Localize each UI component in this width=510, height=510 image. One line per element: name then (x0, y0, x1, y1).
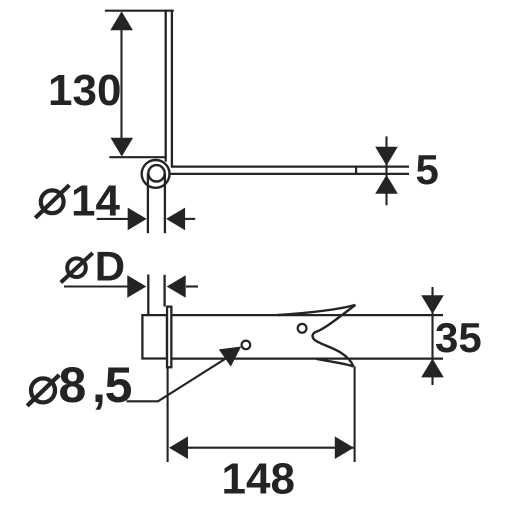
dim o14 line right (185, 218, 195, 220)
rod right line (163, 275, 165, 307)
strap2 bottom line (173, 357, 444, 359)
dim 35 vertical line (431, 287, 433, 385)
arrow leader (to hole 1) (219, 347, 241, 367)
dim 130 vertical line (120, 13, 122, 155)
arrow 35 up (421, 359, 444, 378)
dim oD line right (186, 285, 198, 287)
hole 2 (298, 324, 307, 333)
leader horizontal segment (127, 400, 159, 402)
arrow 130 down (111, 138, 134, 157)
arrow 130 up (110, 11, 133, 30)
rod left line (147, 275, 149, 316)
dim o14 line left (97, 218, 129, 220)
arrow 35 down (421, 295, 444, 314)
arrow oD right (127, 275, 146, 298)
svg-text:5: 5 (416, 146, 439, 193)
svg-text:130: 130 (48, 66, 121, 115)
knuckle inner circle (148, 165, 164, 181)
arrow 148 right (335, 436, 354, 459)
dim 148 line (171, 447, 354, 449)
arrow 5 up (375, 175, 398, 194)
strap bottom line (170, 173, 409, 175)
svg-text:35: 35 (435, 314, 482, 361)
pin right line (164, 173, 166, 233)
strap2 top line (173, 314, 444, 316)
arrow oD left (167, 275, 186, 298)
dim 5 vertical line (385, 136, 387, 205)
dim 130 bottom extension line (109, 156, 165, 158)
ext line right (148) (354, 366, 356, 462)
collar rectangle (167, 307, 171, 368)
knuckle outer circle (142, 160, 170, 188)
dim oD line left (64, 285, 128, 287)
arrow o14 right (128, 208, 147, 231)
strap end tick (355, 167, 357, 174)
pin left line (147, 173, 149, 233)
svg-text:D: D (95, 242, 125, 289)
ext line left (148) (167, 368, 169, 462)
leaf right line + strap top line (172, 10, 409, 167)
label o14 symbol (35, 185, 69, 218)
svg-text:8,5: 8,5 (59, 357, 135, 413)
label oD symbol (61, 253, 93, 283)
tail lower edge (317, 359, 354, 367)
tail tip to notch to lower tip (313, 305, 356, 367)
hole 1 (242, 341, 251, 350)
tail upper curve (278, 305, 355, 315)
leaf left line (165, 10, 167, 162)
label o8,5 symbol (27, 375, 59, 406)
plate rectangle (142, 315, 167, 358)
top extension line (105, 10, 174, 12)
arrow o14 left (166, 208, 185, 231)
arrow 148 left (169, 436, 188, 459)
svg-text:148: 148 (222, 455, 295, 504)
arrow 5 down (375, 147, 398, 166)
svg-text:14: 14 (71, 176, 120, 225)
leader diagonal segment (158, 356, 230, 402)
